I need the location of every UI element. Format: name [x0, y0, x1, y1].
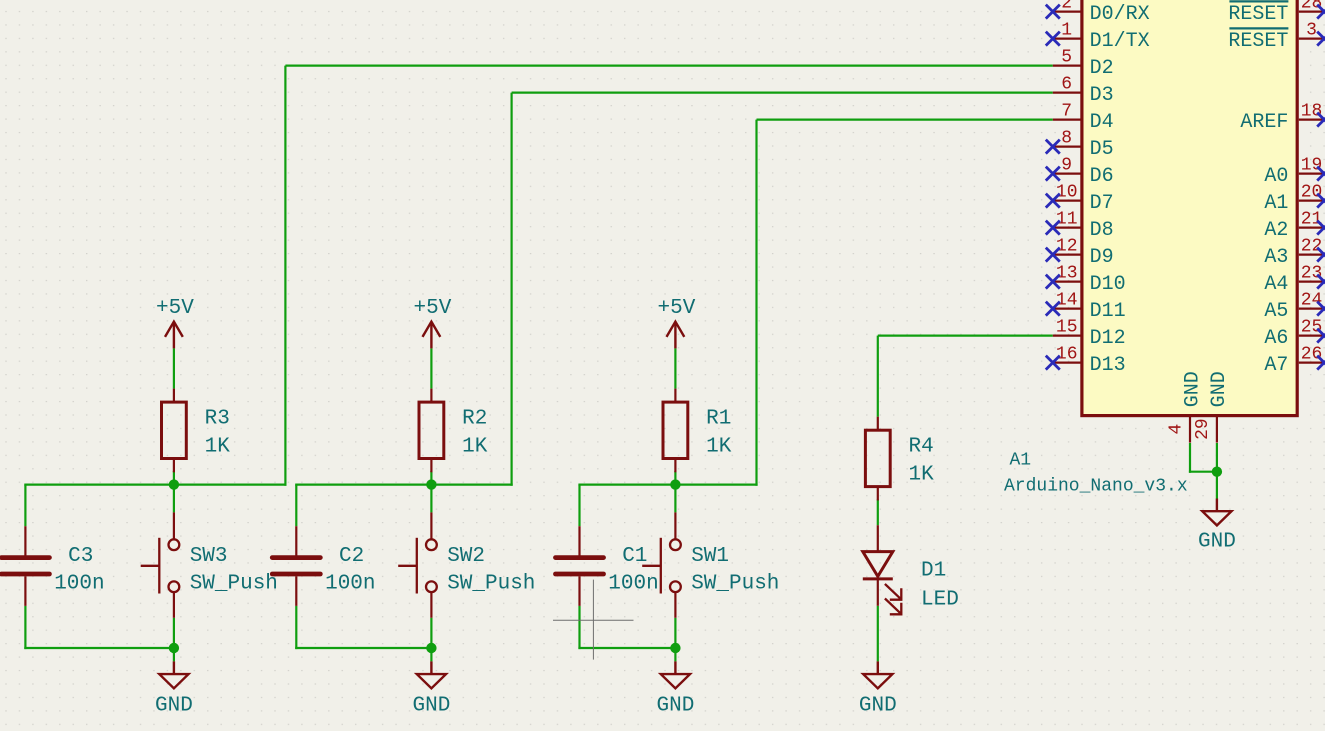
svg-text:A6: A6 — [1264, 327, 1288, 350]
pin 23 A4 (right) — [1264, 263, 1324, 296]
pin 29 GND (bottom) — [1193, 371, 1231, 442]
svg-text:13: 13 — [1056, 263, 1078, 283]
wire +5V to R2 — [430, 348, 432, 388]
no-connect flag pin 12 — [1046, 248, 1060, 262]
svg-text:1K: 1K — [205, 435, 231, 458]
wire R1 to node — [674, 471, 676, 485]
svg-text:LED: LED — [921, 588, 959, 611]
svg-text:3: 3 — [1306, 20, 1317, 40]
svg-text:8: 8 — [1061, 128, 1072, 148]
wire node to C1 — [578, 485, 580, 527]
wire node1 horizontal — [578, 484, 757, 486]
svg-text:6: 6 — [1061, 74, 1072, 94]
capacitor C3 100n — [1, 526, 104, 606]
no-connect flag pin 1 — [1046, 32, 1060, 46]
svg-text:12: 12 — [1056, 236, 1078, 256]
no-connect flag pin 21 — [1317, 221, 1325, 235]
svg-text:4: 4 — [1166, 424, 1186, 435]
svg-text:1K: 1K — [909, 464, 935, 487]
pin 20 A1 (right) — [1264, 182, 1324, 215]
wire SW3 to bottom node — [173, 618, 175, 648]
wire GND pin 4 down — [1189, 443, 1191, 473]
wire +5V to R1 — [674, 348, 676, 388]
resistor R4 1K — [865, 417, 934, 501]
svg-text:26: 26 — [1301, 344, 1323, 364]
svg-text:D6: D6 — [1090, 165, 1114, 188]
wire GND pin 29 down to GND symbol — [1216, 443, 1218, 499]
cursor crosshair — [553, 580, 634, 660]
svg-text:D7: D7 — [1090, 192, 1114, 215]
power symbol +5V (circuit 3) — [156, 297, 194, 348]
wire node to C2 — [295, 485, 297, 527]
svg-text:29: 29 — [1193, 418, 1213, 440]
resistor R3 1K — [162, 389, 231, 473]
svg-text:D12: D12 — [1090, 327, 1126, 350]
pin 4 GND (bottom) — [1166, 371, 1204, 442]
wire node2 horizontal — [295, 484, 513, 486]
pin 21 A2 (right) — [1264, 209, 1324, 242]
wire bottom node to GND — [430, 648, 432, 661]
wire R3 to node — [173, 471, 175, 485]
pin 16 D13 (left) — [1053, 344, 1126, 377]
svg-text:SW2: SW2 — [447, 545, 485, 568]
wire bottom horizontal C2 to SW2 — [295, 647, 431, 649]
power symbol GND (circuit 3) — [155, 661, 193, 717]
wire node to SW1 — [674, 485, 676, 513]
svg-text:A2: A2 — [1264, 219, 1288, 242]
junction node R3 top — [169, 479, 179, 489]
svg-text:D9: D9 — [1090, 246, 1114, 269]
svg-text:23: 23 — [1301, 263, 1323, 283]
svg-text:D8: D8 — [1090, 219, 1114, 242]
svg-text:11: 11 — [1056, 209, 1078, 229]
svg-text:16: 16 — [1056, 344, 1078, 364]
svg-text:D5: D5 — [1090, 138, 1114, 161]
wire SW2 to bottom node — [430, 618, 432, 648]
svg-text:SW_Push: SW_Push — [691, 572, 779, 595]
svg-text:RESET: RESET — [1228, 3, 1288, 26]
wire R2 to node — [430, 471, 432, 485]
wire bottom node to GND — [674, 648, 676, 661]
LED D1 — [863, 525, 959, 614]
pin 1 D1/TX (left) — [1053, 20, 1150, 53]
wire D2 vertical drop — [284, 66, 286, 486]
svg-text:SW1: SW1 — [691, 545, 729, 568]
svg-text:24: 24 — [1301, 290, 1323, 310]
junction bottom node 1 — [670, 643, 680, 653]
wire D12 horizontal run — [878, 335, 1053, 337]
no-connect flag pin 25 — [1317, 329, 1325, 343]
wire C2 down — [295, 606, 297, 649]
svg-text:18: 18 — [1301, 101, 1323, 121]
svg-text:D4: D4 — [1090, 111, 1114, 134]
pin 7 D4 (left) — [1053, 101, 1114, 133]
pin 12 D9 (left) — [1053, 236, 1114, 269]
resistor R2 1K — [419, 389, 488, 473]
svg-text:A3: A3 — [1264, 246, 1288, 269]
svg-text:14: 14 — [1056, 290, 1078, 310]
wire node to C3 — [24, 485, 26, 527]
no-connect flag pin 23 — [1317, 275, 1325, 289]
power symbol GND (circuit 1) — [656, 661, 694, 717]
svg-text:GND: GND — [859, 695, 897, 718]
power symbol +5V (circuit 2) — [413, 297, 451, 348]
svg-text:10: 10 — [1056, 182, 1078, 202]
Arduino Nano body A1 — [1082, 0, 1297, 416]
junction node R1 top — [670, 479, 680, 489]
svg-text:2: 2 — [1061, 0, 1072, 13]
pin 9 D6 (left) — [1053, 155, 1114, 188]
svg-text:100n: 100n — [608, 572, 658, 595]
pin 18 AREF (right) — [1240, 101, 1324, 133]
junction node R2 top — [426, 479, 436, 489]
no-connect flag pin 19 — [1317, 167, 1325, 181]
wire D3 horizontal run — [512, 91, 1053, 93]
wire C1 down — [578, 606, 580, 649]
wire node to SW3 — [173, 485, 175, 513]
svg-text:R4: R4 — [909, 436, 934, 459]
wire D2 horizontal run — [285, 64, 1052, 66]
no-connect flag pin 28 — [1317, 5, 1325, 19]
pin 8 D5 (left) — [1053, 128, 1114, 161]
svg-text:1K: 1K — [462, 435, 488, 458]
switch SW3 SW_Push — [141, 512, 278, 617]
no-connect flag pin 2 — [1046, 5, 1060, 19]
wire bottom horizontal C1 to SW1 — [578, 647, 675, 649]
svg-text:A4: A4 — [1264, 273, 1288, 296]
wire D4 horizontal run — [757, 118, 1053, 120]
no-connect flag pin 9 — [1046, 167, 1060, 181]
svg-text:C1: C1 — [622, 545, 647, 568]
svg-text:A0: A0 — [1264, 165, 1288, 188]
switch SW2 SW_Push — [398, 512, 535, 617]
svg-text:D0/RX: D0/RX — [1090, 3, 1150, 26]
svg-text:GND: GND — [412, 695, 450, 718]
pin 3 RESET (right) — [1228, 20, 1324, 53]
no-connect flag pin 14 — [1046, 302, 1060, 316]
svg-text:1K: 1K — [706, 435, 732, 458]
svg-text:GND: GND — [1198, 531, 1236, 554]
svg-text:D2: D2 — [1090, 57, 1114, 80]
wire D3 vertical drop — [511, 93, 513, 486]
pin 5 D2 (left) — [1053, 47, 1114, 80]
svg-text:1: 1 — [1061, 20, 1072, 40]
wire C3 down — [24, 606, 26, 649]
wire LED D1 to GND — [877, 606, 879, 662]
capacitor C1 100n — [556, 526, 659, 606]
svg-text:+5V: +5V — [657, 297, 695, 320]
svg-text:A1: A1 — [1010, 451, 1032, 471]
svg-text:+5V: +5V — [156, 297, 194, 320]
svg-text:21: 21 — [1301, 209, 1323, 229]
svg-text:100n: 100n — [325, 572, 375, 595]
svg-text:7: 7 — [1061, 101, 1072, 121]
no-connect flag pin 3 — [1317, 32, 1325, 46]
no-connect flag pin 22 — [1317, 248, 1325, 262]
svg-text:SW_Push: SW_Push — [447, 572, 535, 595]
pin 14 D11 (left) — [1053, 290, 1126, 323]
svg-text:20: 20 — [1301, 182, 1323, 202]
pin 13 D10 (left) — [1053, 263, 1126, 296]
capacitor C2 100n — [272, 526, 375, 606]
svg-text:C2: C2 — [339, 545, 364, 568]
svg-text:D13: D13 — [1090, 354, 1126, 377]
svg-text:A1: A1 — [1264, 192, 1288, 215]
svg-text:9: 9 — [1061, 155, 1072, 175]
pin 2 D0/RX (left) — [1053, 0, 1150, 26]
svg-text:A7: A7 — [1264, 354, 1288, 377]
no-connect flag pin 24 — [1317, 302, 1325, 316]
svg-text:19: 19 — [1301, 155, 1323, 175]
svg-text:D10: D10 — [1090, 273, 1126, 296]
resistor R1 1K — [663, 389, 732, 473]
no-connect flag pin 20 — [1317, 194, 1325, 208]
junction GND pins 4/29 — [1212, 467, 1222, 477]
no-connect flag pin 13 — [1046, 275, 1060, 289]
no-connect flag pin 18 — [1317, 113, 1325, 127]
svg-text:25: 25 — [1301, 317, 1323, 337]
svg-text:AREF: AREF — [1240, 111, 1288, 134]
pin 10 D7 (left) — [1053, 182, 1114, 215]
pin 22 A3 (right) — [1264, 236, 1324, 269]
wire R4 to LED D1 — [877, 499, 879, 525]
svg-text:D11: D11 — [1090, 300, 1126, 323]
no-connect flag pin 10 — [1046, 194, 1060, 208]
wire bottom node to GND — [173, 648, 175, 661]
wire node3 horizontal — [24, 484, 286, 486]
pin 19 A0 (right) — [1264, 155, 1324, 188]
svg-text:SW3: SW3 — [190, 545, 228, 568]
pin 28 RESET (right) — [1228, 0, 1324, 26]
wire D12 vertical to R4 — [877, 336, 879, 417]
no-connect flag pin 16 — [1046, 356, 1060, 370]
svg-text:22: 22 — [1301, 236, 1323, 256]
power symbol GND (circuit 2) — [412, 661, 450, 717]
svg-text:GND: GND — [1208, 371, 1231, 407]
svg-text:A5: A5 — [1264, 300, 1288, 323]
svg-text:5: 5 — [1061, 47, 1072, 67]
svg-text:SW_Push: SW_Push — [190, 572, 278, 595]
svg-text:RESET: RESET — [1228, 30, 1288, 53]
svg-text:100n: 100n — [54, 572, 104, 595]
wire +5V to R3 — [173, 348, 175, 388]
pin 25 A6 (right) — [1264, 317, 1324, 350]
power symbol GND (Arduino) — [1198, 499, 1236, 554]
wire bottom horizontal C3 to SW3 — [24, 647, 174, 649]
power symbol +5V (circuit 1) — [657, 297, 695, 348]
junction bottom node 2 — [426, 643, 436, 653]
svg-text:R2: R2 — [462, 408, 487, 431]
wire GND pin4 jog to pin29 — [1189, 471, 1217, 473]
no-connect flag pin 11 — [1046, 221, 1060, 235]
pin 6 D3 (left) — [1053, 74, 1114, 107]
power symbol GND (LED) — [859, 661, 897, 717]
pin 24 A5 (right) — [1264, 290, 1324, 323]
no-connect flag pin 26 — [1317, 356, 1325, 370]
pin 26 A7 (right) — [1264, 344, 1324, 377]
svg-text:D1/TX: D1/TX — [1090, 30, 1150, 53]
svg-text:C3: C3 — [68, 545, 93, 568]
pin 15 D12 (left) — [1053, 317, 1126, 350]
svg-text:GND: GND — [656, 695, 694, 718]
svg-text:GND: GND — [155, 695, 193, 718]
switch SW1 SW_Push — [642, 512, 779, 617]
svg-text:D1: D1 — [921, 559, 946, 582]
wire D4 vertical drop — [755, 120, 757, 486]
svg-text:GND: GND — [1181, 371, 1204, 407]
svg-text:+5V: +5V — [413, 297, 451, 320]
svg-text:Arduino_Nano_v3.x: Arduino_Nano_v3.x — [1004, 477, 1188, 497]
pin 11 D8 (left) — [1053, 209, 1114, 242]
svg-text:R3: R3 — [205, 408, 230, 431]
svg-text:D3: D3 — [1090, 84, 1114, 107]
svg-text:15: 15 — [1056, 317, 1078, 337]
wire node to SW2 — [430, 485, 432, 513]
junction bottom node 3 — [169, 643, 179, 653]
svg-text:R1: R1 — [706, 408, 731, 431]
no-connect flag pin 8 — [1046, 140, 1060, 154]
wire SW1 to bottom node — [674, 618, 676, 648]
